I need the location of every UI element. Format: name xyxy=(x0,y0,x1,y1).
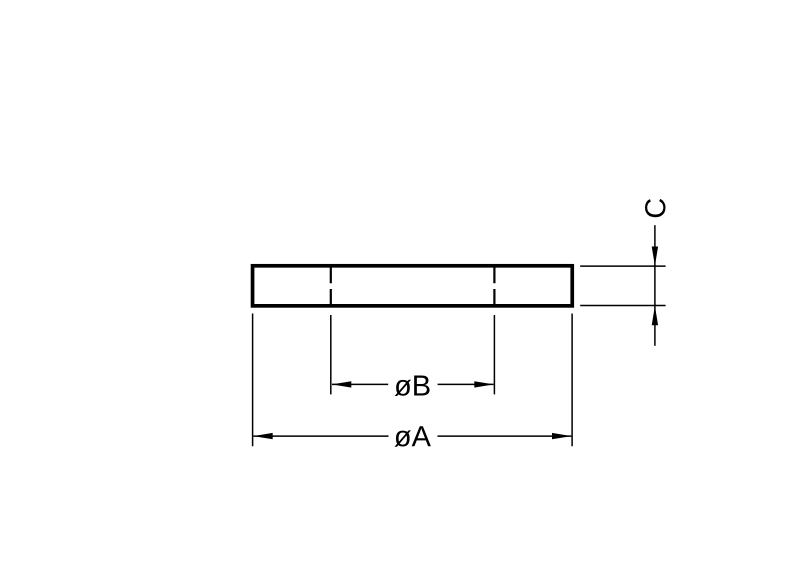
extension line right for dimension A xyxy=(571,314,573,447)
washer body (side view rectangle) xyxy=(253,266,573,306)
dimension line B right segment xyxy=(438,383,494,385)
arrowhead A right xyxy=(552,433,571,439)
label diameter A xyxy=(394,426,430,446)
extension line right for dimension B xyxy=(493,315,495,394)
arrowhead A left xyxy=(253,433,272,439)
dimension line C middle segment xyxy=(654,266,656,305)
hidden line left (hole edge) xyxy=(330,266,332,306)
dimension line C lower segment xyxy=(654,306,656,346)
arrowhead B left xyxy=(332,381,351,387)
extension line left for dimension A xyxy=(252,314,254,447)
arrowhead C upper (pointing down) xyxy=(652,247,658,266)
label diameter B xyxy=(395,376,430,396)
extension line top for dimension C xyxy=(580,265,665,267)
extension line bottom for dimension C xyxy=(580,305,665,307)
extension line left for dimension B xyxy=(330,315,332,394)
hidden line right (hole edge) xyxy=(493,266,495,306)
dimension line A right segment xyxy=(438,435,572,437)
label thickness C (rotated) xyxy=(645,199,666,217)
arrowhead C lower (pointing up) xyxy=(652,306,658,325)
arrowhead B right xyxy=(474,381,493,387)
dimension line B left segment xyxy=(332,383,388,385)
dimension line C upper segment xyxy=(654,225,656,266)
dimension line A left segment xyxy=(253,435,388,437)
